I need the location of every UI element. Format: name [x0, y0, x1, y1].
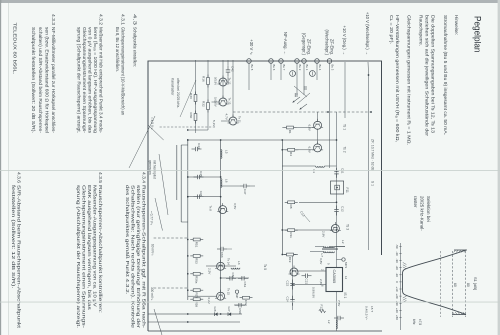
wire X278 riser: [221, 277, 249, 279]
svg-text:+10 V (Geg.) →: +10 V (Geg.) →: [342, 26, 347, 55]
frame corner diagonal small: [148, 125, 164, 140]
wire cluster risers: [188, 129, 208, 131]
svg-text:L2: L2: [341, 240, 345, 244]
crystal symbol upper: [310, 71, 316, 77]
scan right edge sliver: [498, 0, 500, 335]
junction: [281, 229, 283, 231]
svg-text:0/5,9V: 0/5,9V: [214, 77, 218, 85]
svg-text:Stromaufnahme (Bu 5 und Bu 9): Stromaufnahme (Bu 5 und Bu 9) insgesamt …: [442, 15, 448, 135]
wire row Y267: [232, 60, 234, 118]
svg-text:Gleichspannungsinstrument (10-: Gleichspannungsinstrument (10-V-Meßberei…: [120, 27, 126, 115]
junction: [187, 196, 189, 198]
wire X246 riser: [329, 246, 345, 248]
capacitor C24: [292, 296, 294, 300]
svg-text:schalten) und S/R-Abstand beim: schalten) und S/R-Abstand beim Rauschspe…: [37, 27, 43, 133]
wire X305 riser: [234, 304, 246, 306]
svg-text:0,4/0,5 V~: 0,4/0,5 V~: [365, 306, 369, 320]
svg-text:NF-Millivoltmeter parallel zur: NF-Millivoltmeter parallel zur Hörkapsel…: [50, 27, 56, 133]
wire terminal y203 stub: [296, 62, 298, 95]
svg-text:2,8V: 2,8V: [322, 231, 326, 238]
terminal Bu at y251: [247, 59, 252, 64]
wire X230 riser: [282, 229, 336, 231]
svg-text:Bu 7: Bu 7: [282, 65, 286, 71]
leader diagonal 2: [155, 198, 163, 231]
svg-text:Meßsender mit Hub entsprechend: Meßsender mit Hub entsprechend Punkt 3.4…: [98, 27, 104, 133]
wire +30V feed: [248, 62, 250, 90]
svg-text:4.3.5: 4.3.5: [97, 172, 103, 183]
wire X177 riser: [188, 176, 221, 178]
resistor R4: [285, 149, 298, 151]
terminal Bu at y196: [302, 59, 307, 64]
capacitor C12: [336, 206, 338, 210]
svg-text:raster: raster: [413, 196, 418, 208]
svg-text:Bu 1: Bu 1: [305, 65, 309, 71]
svg-text:Gr6: Gr6: [213, 307, 217, 312]
terminal MP2: [235, 290, 238, 293]
wire X266 riser: [206, 265, 236, 267]
resistor R1: [284, 127, 297, 129]
capacitor C47: [246, 185, 250, 187]
resistor R58: [190, 298, 203, 300]
svg-text:R4: R4: [289, 152, 293, 156]
svg-text:offen bei 20/25 kHz-: offen bei 20/25 kHz-: [176, 78, 180, 108]
svg-text:4.3.2: 4.3.2: [98, 14, 104, 25]
resistor R8: [285, 201, 298, 203]
svg-text:0,9/6,9V: 0,9/6,9V: [312, 287, 316, 298]
svg-text:(Gegenspr.): (Gegenspr.): [301, 33, 306, 56]
svg-text:C42: C42: [231, 66, 235, 72]
capacitor C22: [292, 280, 294, 284]
svg-text:Ts 11: Ts 11: [238, 116, 242, 123]
transistor: [217, 292, 225, 300]
wire L1 riser: [324, 165, 336, 167]
dashed leader X127: [158, 126, 215, 128]
svg-text:sen (bzw. Ersatzwiderstand 600: sen (bzw. Ersatzwiderstand 600 Ω für Hör…: [43, 27, 49, 133]
graph dashed level 60: [452, 251, 454, 317]
crystal symbol lower: [290, 71, 296, 77]
svg-text:mit Normpilot: mit Normpilot: [153, 160, 157, 179]
svg-text:5,1V: 5,1V: [212, 120, 216, 127]
svg-text:C63: C63: [220, 252, 224, 258]
junction: [187, 139, 189, 141]
leader diagonal to R56a: [129, 116, 155, 168]
svg-text:L7: L7: [320, 254, 324, 258]
leader diagonal 3: [159, 154, 168, 215]
junction: [187, 239, 189, 241]
IF transformer core: [322, 247, 338, 249]
inductor: [323, 247, 334, 248]
svg-text:MP: MP: [235, 294, 239, 298]
svg-text:Bu 4: Bu 4: [318, 65, 322, 71]
page left margin lighter strip: [1, 3, 8, 335]
capacitor C59: [241, 304, 245, 306]
junction: [187, 139, 189, 141]
wire pair Y318.8: [180, 145, 182, 222]
resistor R53: [190, 255, 203, 257]
svg-text:C59: C59: [238, 308, 242, 314]
svg-text:Rauschsperren-Abschaltpunkt ko: Rauschsperren-Abschaltpunkt kontrolliere…: [97, 185, 103, 313]
dashed module line X288: [154, 287, 187, 289]
inductor L5: [221, 150, 222, 159]
junction: [281, 149, 283, 151]
svg-text:Ts 5: Ts 5: [263, 264, 267, 270]
junction: [336, 229, 338, 231]
svg-text:±7,5: ±7,5: [418, 319, 422, 325]
graph axis: [400, 243, 402, 330]
wire X196.7 riser: [188, 196, 221, 198]
capacitor C21: [308, 275, 312, 277]
graph left stop wall: [454, 249, 467, 251]
svg-text:S 1: S 1: [371, 181, 375, 186]
svg-text:Ts 2: Ts 2: [343, 147, 347, 153]
svg-text:80: 80: [466, 283, 470, 287]
svg-text:Pegelplan: Pegelplan: [473, 16, 483, 53]
svg-text:R30: R30: [189, 113, 193, 119]
corner diagonal: [154, 309, 162, 335]
svg-text:C21: C21: [304, 279, 308, 285]
diode: [215, 312, 218, 316]
wire pair link: [181, 221, 188, 223]
svg-text:+30 V ∿: +30 V ∿: [249, 39, 254, 55]
transistor: [229, 117, 237, 125]
svg-text:-10: -10: [395, 273, 399, 278]
svg-text:C44: C44: [197, 143, 201, 149]
terminal Bu at y229: [269, 59, 274, 64]
terminal Bu at y183: [315, 59, 320, 64]
svg-text:+20: +20: [395, 294, 399, 299]
resistor R19: [284, 254, 297, 256]
junction: [220, 313, 222, 315]
svg-text:Ts 14: Ts 14: [227, 258, 231, 265]
svg-text:Kanalraster: Kanalraster: [171, 78, 175, 96]
svg-text:+30: +30: [395, 301, 399, 306]
svg-text:300 mV∿: 300 mV∿: [150, 287, 154, 301]
svg-text:Ts 13: Ts 13: [228, 98, 232, 105]
svg-text:+40: +40: [395, 308, 399, 313]
svg-text:Bu 5: Bu 5: [250, 65, 254, 71]
transistor: [219, 206, 227, 214]
svg-text:beziehen sich auf die jeweilig: beziehen sich auf die jeweiligen Schaltz…: [424, 15, 430, 136]
wire cap row Y207.5: [292, 255, 294, 310]
svg-text:R32: R32: [202, 101, 206, 107]
svg-text:S/R-Abstand beim Rauschsperren: S/R-Abstand beim Rauschsperren-Abschaltp…: [16, 185, 22, 329]
svg-text:-40: -40: [395, 251, 399, 256]
resistor F12 zigzag: [319, 309, 326, 312]
svg-text:des Schaltpunktes gemäß Punkt: des Schaltpunktes gemäß Punkt 4.3.2.: [124, 185, 130, 295]
junction: [336, 201, 338, 203]
svg-text:R57: R57: [195, 292, 199, 298]
svg-text:Rauschsperren-Schaltpunkt ggf.: Rauschsperren-Schaltpunkt ggf. mit R 56a…: [141, 185, 147, 329]
svg-text:Cʟ = 20 pF).: Cʟ = 20 pF).: [388, 15, 394, 44]
wire row Y292: [207, 60, 209, 130]
svg-text:kHz: kHz: [412, 319, 416, 325]
wire +10V geg feed: [344, 62, 346, 118]
svg-text:Schaltschwelle: Nach rechts dr: Schaltschwelle: Nach rechts drehen). Kon…: [129, 185, 135, 328]
capacitor C42: [227, 66, 229, 70]
junction: [220, 196, 222, 198]
svg-text:Rauschsperre.: Rauschsperre.: [418, 15, 424, 46]
inductor: [323, 252, 334, 253]
resistor R33: [195, 92, 197, 105]
svg-text:15 T: 15 T: [370, 306, 374, 312]
svg-text:MP1: MP1: [344, 262, 348, 269]
wire ZF wechselspr input: [329, 62, 331, 168]
wire R4 riser: [299, 149, 314, 151]
svg-text:sprung (Schaltpunkt der Rausch: sprung (Schaltpunkt der Rauschsperre) an…: [75, 27, 81, 133]
inductor L3: [231, 268, 240, 269]
svg-text:C46: C46: [199, 191, 203, 197]
trimmer cap plates A: [305, 86, 307, 90]
capacitor C46: [200, 196, 204, 198]
svg-text:TELEDUX 80 b56L.: TELEDUX 80 b56L.: [12, 23, 18, 75]
svg-text:Schaltpunkt feststellen (Sollw: Schaltpunkt feststellen (Sollwert: 20 dB…: [30, 27, 36, 133]
terminal Bu at y170.5: [327, 59, 332, 64]
svg-text:3,5V: 3,5V: [233, 203, 237, 210]
resistor R32: [207, 100, 209, 113]
wire IC pin2 riser: [293, 270, 327, 272]
svg-text:4.3.4: 4.3.4: [141, 172, 147, 183]
wire ts1 ts2 row: [317, 112, 319, 122]
svg-text:sprung (Abschaltpunkt der Raus: sprung (Abschaltpunkt der Rauschsperre) …: [75, 185, 81, 328]
wire ZF gegenspr input: [303, 62, 305, 95]
leader line offen: [180, 80, 196, 117]
fold crease upper: [0, 169, 500, 172]
wire X202 riser: [299, 201, 337, 203]
terminal Bu at y203: [295, 59, 300, 64]
svg-text:-20: -20: [395, 266, 399, 271]
svg-text:F11: F11: [345, 188, 349, 193]
transistor: [219, 78, 227, 86]
transistor: [314, 144, 322, 152]
svg-text:2,5V: 2,5V: [208, 268, 212, 275]
svg-text:Gleichspannungsinstrument eine: Gleichspannungsinstrument einen Spannung…: [81, 27, 87, 133]
svg-text:C12: C12: [341, 206, 345, 212]
svg-text:stellen (nur geringfügige Dreh: stellen (nur geringfügige Drehung! Erhöh…: [135, 185, 141, 329]
svg-text:von 0 μV ausgehend langsam erh: von 0 μV ausgehend langsam erhöhen, bis …: [86, 27, 92, 134]
trimmer cap plates B: [296, 93, 298, 97]
page left edge line: [7, 3, 10, 335]
svg-text:2,6V: 2,6V: [319, 279, 323, 286]
svg-text:Ts 1: Ts 1: [343, 124, 347, 130]
svg-text:Ts 12: Ts 12: [228, 78, 232, 85]
resistor R56a: [190, 273, 203, 275]
svg-text:R19: R19: [288, 257, 292, 263]
svg-text:HF-Verstärkungen gemessen mit: HF-Verstärkungen gemessen mit USVH (Rₐ =…: [394, 15, 400, 142]
wire terminal y229 stub: [270, 62, 272, 80]
svg-text:14: 14: [344, 276, 348, 280]
wire IF out to frame right: [336, 291, 338, 331]
diode: [228, 312, 231, 316]
wire IC pin6 riser: [293, 284, 327, 286]
scan left edge sliver: [0, 0, 1, 335]
junction: [220, 176, 222, 178]
svg-text:Ts 15: Ts 15: [227, 288, 231, 295]
graph corner hatch right: [403, 296, 407, 298]
wire bottom X322: [148, 321, 240, 323]
fold crease lower: [0, 301, 500, 304]
resistor R16: [207, 75, 209, 88]
capacitor C44: [198, 148, 202, 150]
svg-text:+50: +50: [395, 315, 399, 320]
svg-text:+10: +10: [395, 287, 399, 292]
svg-text:≈ 0,77 V∿: ≈ 0,77 V∿: [150, 211, 154, 226]
svg-text:R1: R1: [288, 130, 292, 134]
junction: [336, 139, 338, 141]
annotation IF bandwidth bracket: [368, 75, 370, 250]
svg-text:L3: L3: [237, 261, 241, 265]
wire C47 riser: [250, 185, 255, 187]
svg-text:gemessen: gemessen: [148, 160, 152, 175]
junction: [187, 196, 189, 198]
capacitor: [340, 317, 344, 319]
svg-text:Bu 3: Bu 3: [331, 65, 335, 71]
wire pair Y323.2: [176, 145, 178, 200]
svg-text:R51: R51: [195, 242, 199, 248]
terminal MP1: [342, 258, 345, 261]
svg-text:Meßsender-Ausgangsspannung von: Meßsender-Ausgangsspannung von ca. 10 μV: [91, 185, 97, 308]
svg-text:L2: L2: [327, 320, 331, 324]
svg-text:4.3.6: 4.3.6: [16, 172, 22, 183]
svg-text:CA3065: CA3065: [332, 270, 336, 284]
svg-text:Bu 6: Bu 6: [272, 65, 276, 71]
svg-text:R56a: R56a: [195, 276, 199, 284]
wire IF path: [336, 112, 338, 267]
capacitor C45: [200, 176, 204, 178]
wire row Y277: [222, 60, 224, 99]
wire X149.8 riser: [282, 149, 299, 151]
terminal Bu at y219: [279, 59, 284, 64]
inductor L1: [316, 166, 325, 167]
svg-text:C45: C45: [199, 171, 203, 177]
wire X254.5 riser: [282, 254, 298, 256]
svg-text:-50: -50: [395, 244, 399, 249]
graph selectivity curve: [403, 250, 466, 315]
resistor R30: [195, 111, 197, 124]
svg-text:F12: F12: [320, 305, 324, 311]
svg-text:Bu 8, Bu 12 anschließen.: Bu 8, Bu 12 anschließen.: [114, 27, 120, 72]
svg-text:L5: L5: [225, 150, 229, 154]
inductor L2: [336, 320, 337, 329]
svg-text:NF-Ausg. ←: NF-Ausg. ←: [283, 32, 288, 55]
wire +10V wechselspr feed: [367, 62, 370, 75]
svg-text:4,7V: 4,7V: [225, 114, 229, 121]
junction: [281, 139, 283, 141]
svg-text:Die doppelten Spannungsangaben: Die doppelten Spannungsangaben bei Ts 12…: [430, 15, 436, 133]
graph right stop wall: [452, 314, 466, 316]
svg-text:Gleichspannungen gemessen mit: Gleichspannungen gemessen mit Instrument…: [406, 15, 412, 145]
svg-text:7,5V: 7,5V: [337, 300, 341, 307]
junction: [187, 321, 189, 323]
wire transformer joins: [336, 246, 346, 248]
svg-text:lieren (fₘₒₔ = 1000 Hz). HF-Au: lieren (fₘₒₔ = 1000 Hz). HF-Ausgangsspan…: [92, 27, 98, 133]
trimmer arrows: [294, 86, 307, 97]
svg-text:Ts 3: Ts 3: [346, 224, 350, 230]
svg-text:Selektion bei: Selektion bei: [426, 196, 431, 222]
junction: [292, 270, 294, 272]
svg-text:Schaltpunkte einstellen:: Schaltpunkte einstellen:: [132, 27, 138, 67]
resistor R57: [190, 289, 203, 291]
svg-text:C60: C60: [231, 273, 235, 279]
svg-text:+10 V (Wechselspr.) →: +10 V (Wechselspr.) →: [365, 12, 370, 55]
svg-text:R11: R11: [289, 232, 293, 238]
svg-text:60: 60: [453, 283, 457, 287]
resistor R11: [285, 229, 298, 231]
svg-text:C24: C24: [286, 297, 290, 303]
graph dashed level 80: [465, 251, 467, 317]
wire supply bus Y217.7: [281, 140, 283, 255]
junction: [187, 176, 189, 178]
svg-text:C47: C47: [243, 189, 247, 195]
wire audio path Y279.4: [220, 140, 222, 300]
resistor R62: [240, 297, 253, 299]
arrow: [293, 97, 301, 103]
svg-text:L6: L6: [225, 179, 229, 183]
svg-text:C61: C61: [243, 282, 247, 288]
svg-text:ZF: 10,7 MHz · 62 dB: ZF: 10,7 MHz · 62 dB: [371, 139, 375, 171]
junction: [220, 139, 222, 141]
svg-text:Gr7: Gr7: [227, 307, 231, 312]
wire row Y304.5: [195, 60, 197, 133]
capacitor C63: [223, 248, 227, 250]
svg-text:60 mV∿: 60 mV∿: [151, 244, 155, 256]
scan top edge bar: [0, 0, 500, 3]
wire terminal y183 stub: [316, 62, 318, 80]
junction: [281, 254, 283, 256]
svg-text:4.3.3: 4.3.3: [50, 14, 56, 25]
svg-text:-30: -30: [395, 259, 399, 264]
arrow: [300, 104, 308, 110]
transistor: [217, 262, 225, 270]
svg-text:Ts 8: Ts 8: [209, 206, 213, 212]
graph corner hatch left: [403, 263, 407, 265]
dashed module line X238: [153, 237, 187, 239]
node dot: [327, 111, 329, 113]
svg-text:0,65/0V: 0,65/0V: [214, 97, 218, 107]
wire R1 riser: [297, 127, 315, 129]
svg-text:20/25 kHz-Kanal-: 20/25 kHz-Kanal-: [420, 196, 425, 231]
svg-text:4.3.1: 4.3.1: [120, 14, 126, 25]
wire X296 riser: [188, 295, 217, 297]
schematic frame: [148, 61, 382, 331]
svg-text:0,2V: 0,2V: [207, 298, 211, 305]
svg-text:R33: R33: [189, 93, 193, 99]
transistor: [290, 268, 298, 276]
svg-text:R16: R16: [202, 76, 206, 82]
svg-text:EMK ausgehend langsam verringe: EMK ausgehend langsam verringern, bis da…: [86, 185, 92, 310]
svg-text:IS 1: IS 1: [343, 293, 347, 299]
transistor: [219, 98, 227, 106]
wire C63: [227, 248, 232, 250]
wire bottom bus Y312.2: [187, 140, 189, 300]
resistor R51: [190, 239, 203, 241]
svg-text:Gleichspannungsinstrument eine: Gleichspannungsinstrument einen Spannung…: [80, 185, 86, 329]
svg-text:Bu 2: Bu 2: [298, 65, 302, 71]
dashed measure line X112: [232, 111, 372, 113]
svg-text:Hinweise:: Hinweise:: [453, 15, 459, 35]
svg-text:S1 [dB]: S1 [dB]: [473, 277, 478, 290]
svg-text:R53: R53: [195, 258, 199, 264]
junction: [220, 277, 222, 279]
transistor: [331, 225, 339, 233]
svg-text:3,8V: 3,8V: [319, 258, 323, 265]
svg-text:4.3: 4.3: [132, 14, 138, 26]
svg-text:(Wechselspr.): (Wechselspr.): [324, 29, 329, 55]
junction: [187, 129, 189, 131]
filter F11: [331, 181, 344, 194]
wire NF-Ausg: [280, 62, 282, 80]
graph dashed level 40: [440, 251, 442, 317]
svg-text:C22: C22: [286, 281, 290, 287]
